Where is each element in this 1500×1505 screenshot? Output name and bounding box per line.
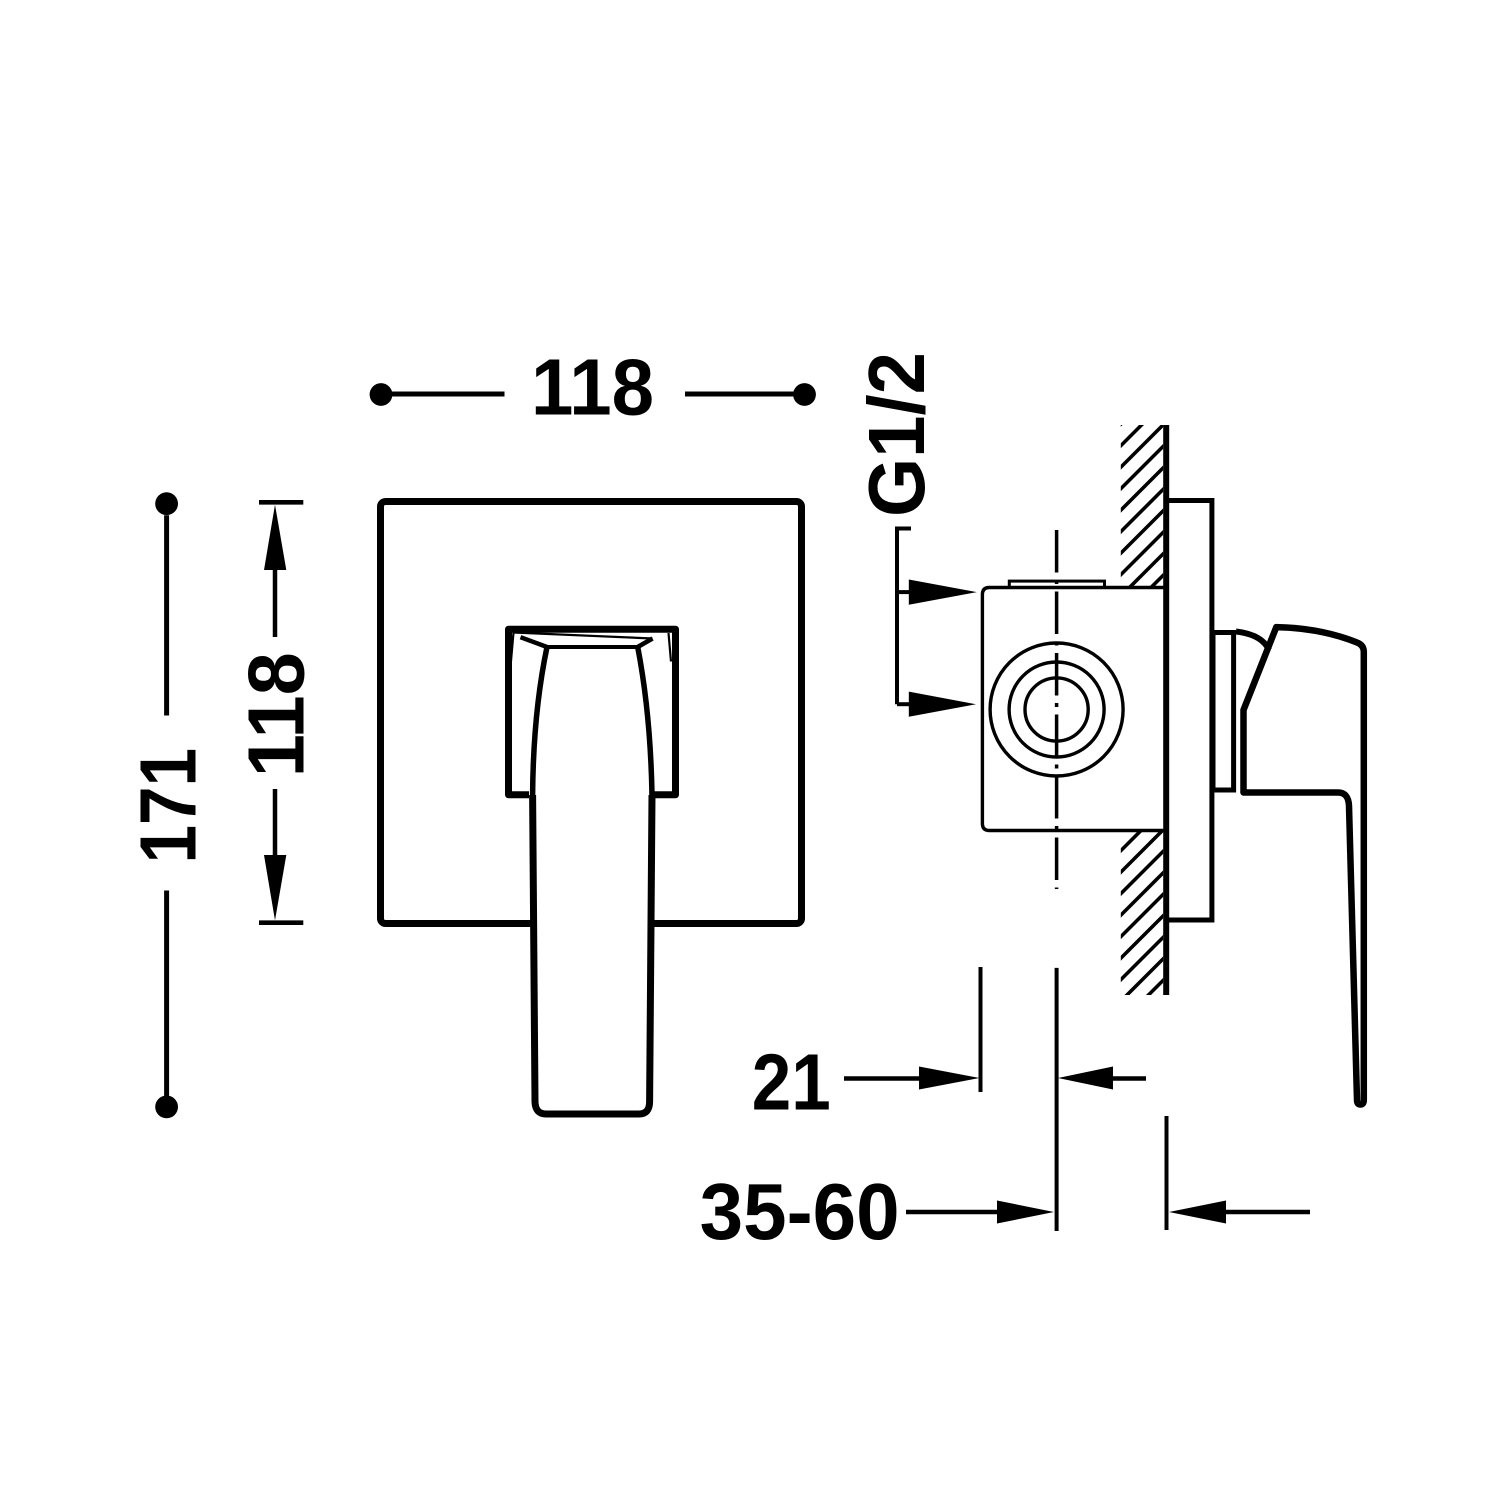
side view: escutcheon plate edge-on bbox=[1166, 501, 1212, 921]
side view: handle cap and lever bbox=[1244, 627, 1364, 1104]
dimension 21: left arrowhead bbox=[919, 1067, 980, 1090]
front view: lever below plate bbox=[533, 795, 652, 1114]
dimension 35-60: right arrowhead bbox=[1169, 1201, 1226, 1224]
dimension 21: left tail bbox=[844, 1076, 920, 1081]
dimension 118 top: right dot bbox=[793, 383, 816, 406]
dimension 171: top dot bbox=[155, 492, 178, 515]
dimension 118 top: left line bbox=[391, 392, 505, 397]
G1/2 arrow to top port: tail bbox=[897, 590, 912, 594]
front view: handle top front edge bbox=[547, 645, 638, 649]
front view: recess inner left wedge bbox=[511, 633, 514, 662]
dimension 118 top: left dot bbox=[370, 383, 393, 406]
front view: handle top bevel left bbox=[521, 637, 548, 647]
side view: outlet circle middle bbox=[1009, 662, 1104, 757]
svg-text:118: 118 bbox=[531, 343, 654, 432]
dimension 171: top line bbox=[164, 515, 169, 715]
front view: handle left side bbox=[533, 647, 547, 795]
svg-text:35-60: 35-60 bbox=[700, 1167, 900, 1256]
dimension 118 top: right line bbox=[685, 392, 794, 397]
svg-text:21: 21 bbox=[752, 1037, 831, 1126]
front view: recess inner top edge (thin) bbox=[514, 633, 653, 639]
dimension 118 left: top tick bbox=[259, 500, 303, 505]
front view: handle right side bbox=[638, 647, 652, 795]
dimension 118 left: down arrowhead bbox=[264, 855, 286, 920]
svg-text:G1/2: G1/2 bbox=[852, 352, 941, 517]
dimension 35-60: left arrowhead bbox=[997, 1201, 1054, 1224]
dimension 35-60: right tail bbox=[1226, 1210, 1310, 1215]
front view: handle top bevel right bbox=[638, 639, 653, 648]
dimension 118 left: upper shaft bbox=[273, 568, 278, 637]
side view: cartridge sleeve bbox=[1213, 633, 1234, 791]
dimension 118 left: lower shaft bbox=[273, 789, 278, 857]
G1/2 leader top tick bbox=[895, 527, 911, 531]
G1/2 leader vertical line bbox=[895, 527, 899, 705]
svg-text:171: 171 bbox=[123, 748, 212, 864]
side view: valve body bbox=[982, 588, 1164, 831]
front view: recess inner right wedge bbox=[669, 633, 672, 662]
side view: vertical center line (dash-dot) bbox=[1055, 530, 1059, 889]
side view: handle cap corner arc bbox=[1236, 632, 1269, 651]
G1/2 arrow to top port: head bbox=[909, 580, 977, 605]
dimension 171: bottom line bbox=[164, 891, 169, 1098]
dimension 118 left: bottom tick bbox=[259, 920, 303, 925]
side view: outlet circle outer bbox=[990, 643, 1123, 776]
dimension 21: right arrowhead bbox=[1058, 1067, 1113, 1090]
dimension 171: bottom dot bbox=[155, 1096, 178, 1119]
svg-text:118: 118 bbox=[231, 652, 320, 777]
dimension 21: extension line at center bbox=[1055, 968, 1059, 1231]
side view: top inlet port G1/2 bbox=[1009, 581, 1104, 591]
dimension 21: right tail bbox=[1113, 1076, 1146, 1081]
G1/2 arrow to outlet: head bbox=[909, 692, 976, 717]
G1/2 arrow to outlet: tail bbox=[897, 702, 912, 706]
side view: wall face line bbox=[1163, 425, 1169, 995]
dimension 35-60: extension line at wall bbox=[1165, 1116, 1169, 1230]
dimension 118 left: up arrowhead bbox=[264, 505, 286, 570]
side view: outlet circle inner bbox=[1025, 678, 1088, 741]
front view: escutcheon plate bbox=[381, 502, 802, 924]
front view: square recess cutout outline bbox=[509, 629, 676, 795]
dimension 35-60: left tail bbox=[906, 1210, 1000, 1215]
dimension 21: extension line at body face bbox=[979, 967, 983, 1092]
